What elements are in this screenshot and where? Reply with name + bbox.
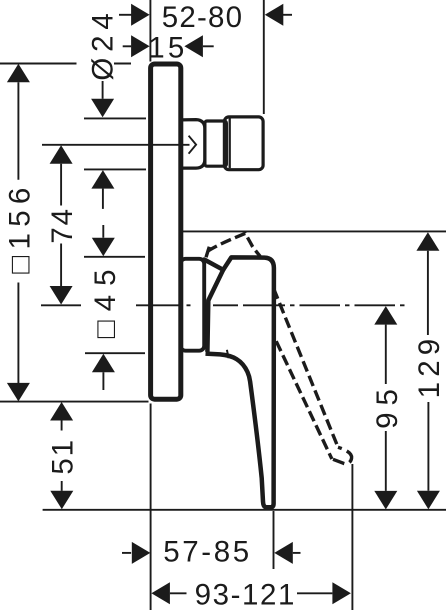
dashed lever top edge [205,233,261,256]
dashed lever lower edge [276,341,332,459]
wire extension line knob bottom [84,168,146,170]
lever handle neck left edge [207,270,223,352]
svg-text:Ø24: Ø24 [87,7,120,80]
wire extension line knob top [84,117,146,119]
wire extension line plate top left [0,63,77,65]
dimension 74 [50,145,73,164]
dimension 15 [123,45,214,47]
svg-text:51: 51 [47,438,80,474]
dashed lever upper right edge [274,289,338,448]
svg-text:52-80: 52-80 [162,1,243,34]
dimension 95 [374,306,397,325]
knob end cap inner line [229,119,231,169]
dimension 52-80 [119,14,292,16]
wire centerline handle axis [41,304,405,306]
svg-text:93-121: 93-121 [195,579,296,612]
wire extension line lever tip [273,511,275,569]
svg-text:95: 95 [371,382,404,429]
dimension 57-85 [122,552,131,554]
wire extension line knob face top [263,0,265,114]
svg-text:74: 74 [46,207,79,243]
escutcheon plate [151,64,181,399]
wire extension line dashed lever top [179,230,447,232]
svg-text:15: 15 [148,31,187,64]
wire extension line wall top [149,0,151,62]
dimension 129 [416,232,439,251]
cartridge housing [181,259,205,351]
knob middle section [205,121,227,166]
wire floor line [43,509,446,511]
wire extension line 45 bottom [85,352,145,354]
lever handle body outline [206,257,274,507]
dimension 93-121 [151,582,170,604]
wire extension line 45 top [84,256,145,258]
knob chevron cone tip [189,136,197,154]
dimension square 45 [102,225,104,238]
knob cone boss [182,120,205,169]
knob end cap [224,117,263,170]
svg-text:□156: □156 [3,181,36,273]
dashed lever left edge [205,247,210,262]
svg-text:57-85: 57-85 [163,535,251,568]
wire extension line plate bottom [0,401,149,403]
svg-text:129: 129 [413,334,446,399]
dimension square 156 [7,64,30,82]
lever handle ridge [204,260,223,270]
lever handle parting tick [227,350,229,358]
svg-text:□45: □45 [89,260,122,338]
wire extension line wall bottom [150,404,152,611]
dimension 51 [50,402,73,421]
wire extension line dashed lever tip [351,464,353,610]
dashed lever tip [333,447,352,464]
wire centerline knob axis [42,144,190,146]
